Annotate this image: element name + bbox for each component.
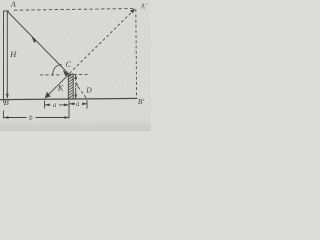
pole AB right line (H measure) — [6, 12, 8, 99]
a-left arrowheads — [45, 104, 50, 107]
tick at reflected hit — [44, 101, 46, 109]
dashed vertical A' to B' — [135, 9, 138, 98]
arrowhead H bottom — [6, 94, 9, 99]
paper grain — [0, 0, 1, 1]
dashed virtual ray C to A' — [70, 8, 136, 73]
dashed top line A to A' — [14, 9, 136, 11]
tick at extension hit — [86, 100, 88, 109]
arrowhead on virtual ray near A' — [130, 9, 135, 14]
labels — [4, 0, 147, 122]
reflected ray C to ground — [45, 74, 69, 97]
mirror K: hatched strip — [68, 73, 73, 99]
h dimension line — [75, 75, 77, 98]
tick at mirror plane (down to b line) — [68, 101, 70, 119]
ground line B-B' — [0, 98, 137, 99]
b dimension line — [4, 117, 27, 119]
pole AB left line — [3, 11, 5, 103]
b arrowheads — [4, 116, 9, 119]
angle arc at C — [53, 65, 62, 76]
dashed horizontal normal through C — [40, 74, 61, 76]
a-right arrowheads — [70, 102, 75, 105]
paper background — [0, 0, 151, 131]
a-left dimension line — [45, 104, 51, 106]
tick at pole for b — [3, 111, 5, 119]
a-right dimension line — [70, 103, 75, 105]
arrowhead on incident ray — [32, 37, 37, 43]
arrowhead on reflected ray at ground — [45, 92, 51, 99]
bottom dimension ticks — [4, 100, 88, 118]
pole top bar at A — [3, 10, 9, 12]
incident ray A to C — [7, 11, 69, 74]
dashed extension ray C to ground D — [69, 74, 87, 99]
arrowhead at C end of incident ray — [63, 70, 69, 77]
